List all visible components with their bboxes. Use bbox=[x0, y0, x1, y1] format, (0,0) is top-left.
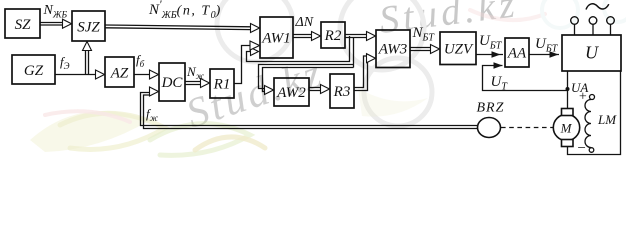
svg-text:U: U bbox=[585, 43, 599, 63]
svg-text:+: + bbox=[578, 90, 587, 105]
svg-text:−: − bbox=[577, 141, 587, 157]
svg-text:ΔN: ΔN bbox=[295, 15, 314, 30]
svg-text:SZ: SZ bbox=[15, 17, 32, 33]
svg-text:BRZ: BRZ bbox=[477, 101, 505, 116]
svg-text:DC: DC bbox=[161, 75, 184, 91]
svg-text:AZ: AZ bbox=[110, 66, 129, 82]
svg-text:UZV: UZV bbox=[444, 42, 474, 58]
svg-text:NЖБ: NЖБ bbox=[43, 3, 68, 21]
svg-text:N'ЖБ(n, T0): N'ЖБ(n, T0) bbox=[148, 0, 221, 21]
svg-text:AA: AA bbox=[507, 46, 527, 62]
svg-text:LM: LM bbox=[597, 112, 617, 127]
svg-text:Nж: Nж bbox=[186, 64, 205, 81]
svg-text:fЭ: fЭ bbox=[60, 54, 70, 71]
svg-text:UТ: UТ bbox=[491, 74, 509, 93]
svg-text:AW3: AW3 bbox=[378, 42, 408, 58]
svg-text:UБТ: UБТ bbox=[535, 36, 559, 55]
svg-text:GZ: GZ bbox=[24, 63, 44, 79]
svg-text:UБТ: UБТ bbox=[479, 33, 503, 52]
svg-text:fб: fб bbox=[136, 52, 145, 69]
svg-text:R3: R3 bbox=[333, 84, 351, 100]
svg-text:SJZ: SJZ bbox=[77, 20, 100, 36]
svg-text:M: M bbox=[560, 121, 573, 136]
